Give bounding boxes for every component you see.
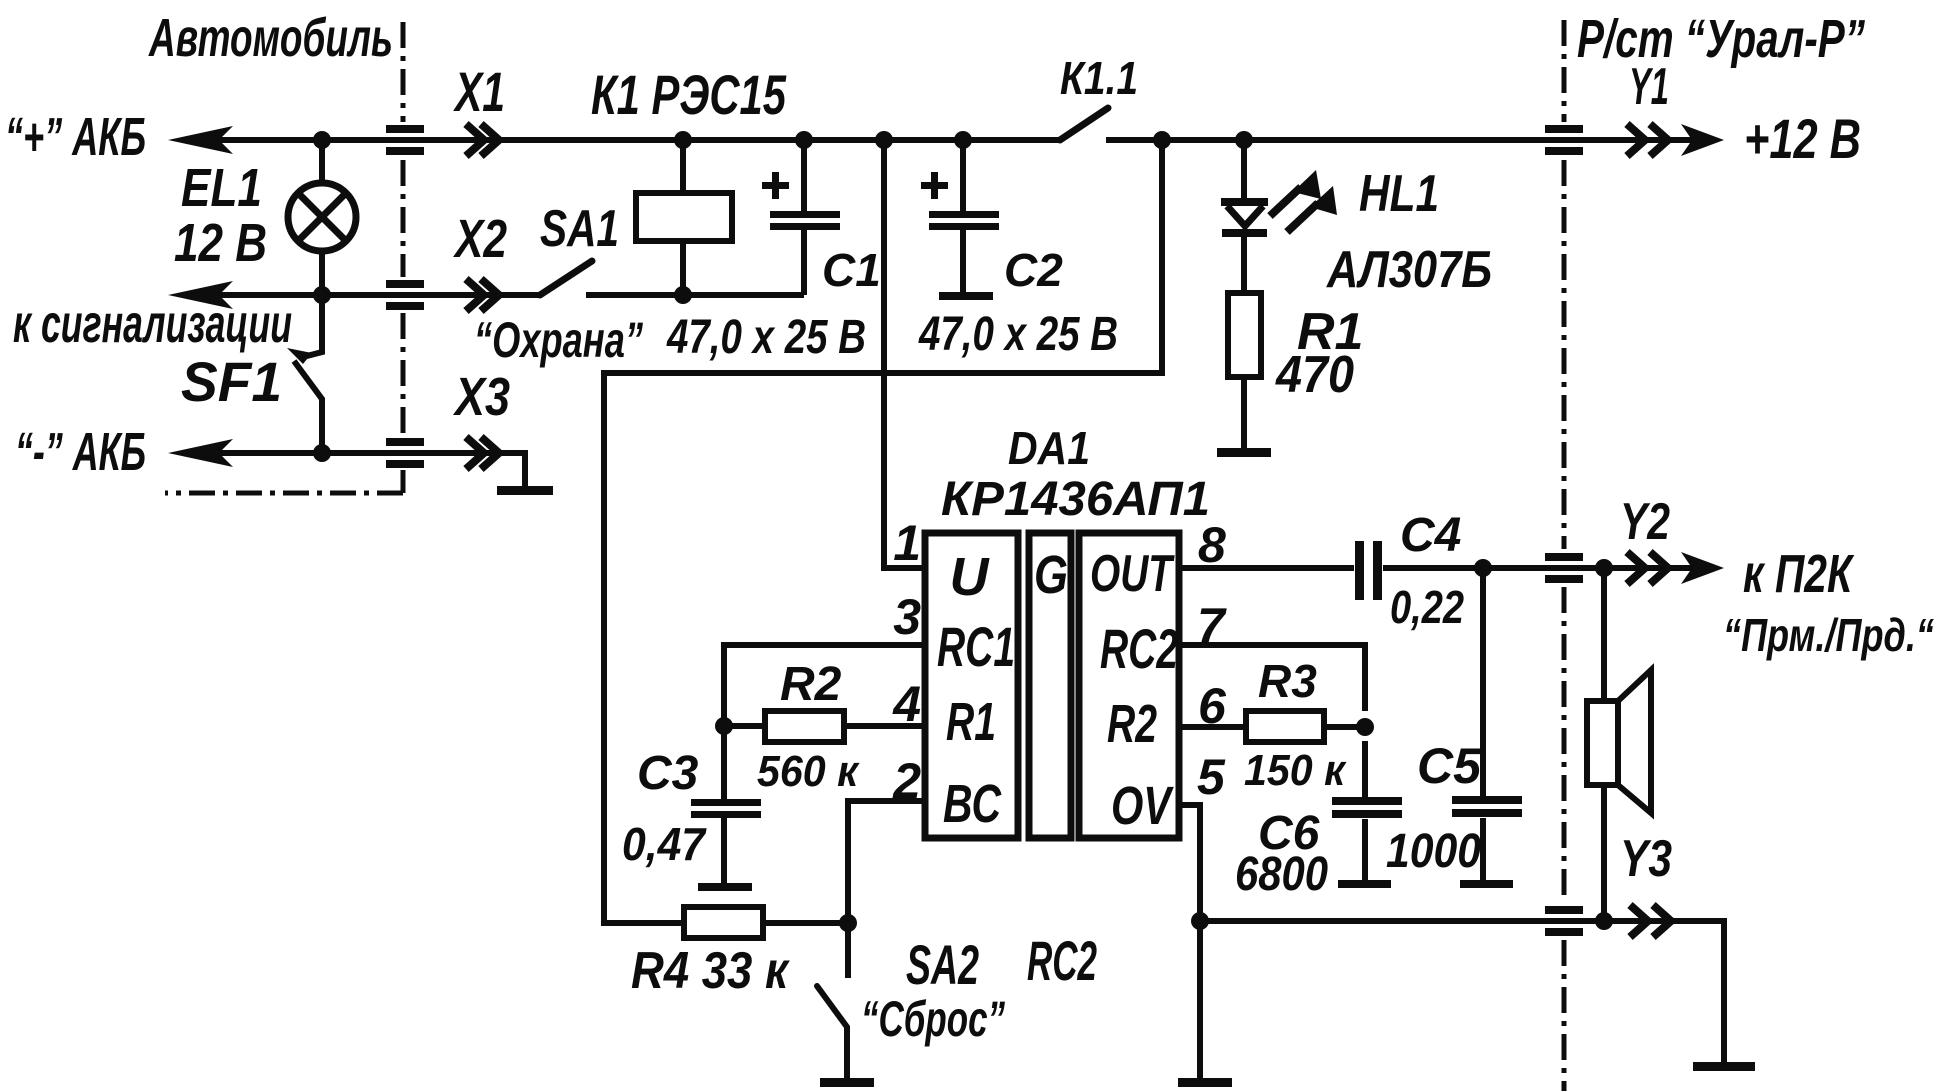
connector X2 bars: [386, 280, 424, 288]
ground bar OV: [1178, 1078, 1232, 1087]
svg-text:С4: С4: [1400, 509, 1461, 562]
arrow to -АКБ: [168, 439, 233, 467]
svg-text:+12 В: +12 В: [1744, 107, 1861, 170]
svg-text:3: 3: [893, 589, 921, 645]
svg-text:DA1: DA1: [1008, 422, 1090, 474]
wire R4 right lead: [763, 920, 848, 926]
wire speaker bottom lead: [1601, 785, 1607, 921]
wire SA2 upper stub: [845, 923, 851, 978]
wire C6 bottom lead to ground: [1362, 819, 1368, 880]
node top wire / C2: [954, 131, 972, 149]
enclosure border Р/ст Урал-Р (dash-dot): [1562, 20, 1567, 1091]
svg-text:“Прм./Прд.“: “Прм./Прд.“: [1723, 609, 1934, 661]
svg-text:EL1: EL1: [181, 158, 262, 218]
svg-text:АЛ307Б: АЛ307Б: [1325, 241, 1492, 299]
wire R1 bottom to ground: [1241, 377, 1247, 448]
enclosure border Автомобиль (dash-dot): [165, 22, 403, 493]
svg-text:к сигнализации: к сигнализации: [13, 294, 292, 354]
LED HL1: [1221, 198, 1268, 206]
node top wire / HL1 branch: [1235, 131, 1253, 149]
connector Y1 chevrons: [1627, 124, 1668, 156]
svg-text:“+” АКБ: “+” АКБ: [5, 107, 146, 167]
svg-text:0,22: 0,22: [1390, 581, 1464, 633]
capacitor C1 polarity +: [762, 182, 789, 189]
switch SA1 blade: [540, 261, 592, 295]
node R4-SA2 junction: [839, 914, 857, 932]
svg-text:Y3: Y3: [1620, 830, 1672, 888]
resistor R4: [684, 907, 763, 938]
LED HL1 light arrows: [1270, 187, 1318, 232]
IC DA1 box left section: [925, 533, 1018, 838]
speaker BA: [1587, 701, 1618, 785]
node top wire / C1: [795, 131, 813, 149]
connector X1 chevrons: [466, 124, 499, 156]
ground bar C3: [698, 883, 752, 891]
connector Y3 bars: [1545, 906, 1583, 914]
svg-text:G: G: [1034, 545, 1068, 605]
svg-text:HL1: HL1: [1359, 165, 1439, 223]
wire C5 top lead: [1480, 568, 1486, 796]
wire lamp top lead: [319, 140, 325, 184]
wire R2 right lead to pin4: [844, 723, 922, 729]
capacitor C4 plates: [1355, 541, 1364, 600]
wire +12V rail top: left arrow to X1: [185, 137, 1058, 143]
svg-text:С3: С3: [637, 747, 699, 800]
resistor R3: [1246, 711, 1324, 742]
svg-text:R2: R2: [780, 658, 842, 711]
svg-text:470: 470: [1275, 346, 1354, 404]
svg-text:С5: С5: [1417, 738, 1482, 794]
connector X3 bars: [386, 438, 424, 446]
svg-text:X1: X1: [453, 60, 505, 123]
svg-text:“Охрана”: “Охрана”: [474, 312, 643, 368]
svg-text:47,0 х 25 В: 47,0 х 25 В: [918, 308, 1118, 361]
wire -AKB line y=453: [185, 453, 525, 486]
wire lamp bottom lead: [319, 250, 325, 295]
svg-text:“Сброс”: “Сброс”: [861, 991, 1005, 1047]
svg-text:12 В: 12 В: [174, 213, 267, 273]
svg-text:6: 6: [1198, 678, 1227, 734]
svg-text:Y1: Y1: [1629, 58, 1669, 116]
svg-text:560 к: 560 к: [757, 747, 861, 796]
resistor R2: [765, 711, 844, 742]
node top wire / lamp branch: [313, 131, 331, 149]
svg-text:R4 33 к: R4 33 к: [631, 942, 790, 1000]
wire C6 top lead: [1362, 741, 1368, 797]
svg-text:“-” АКБ: “-” АКБ: [15, 422, 146, 482]
connector Y3 chevrons: [1630, 905, 1671, 937]
relay coil K1: [636, 193, 732, 241]
ground bar Y3: [1693, 1062, 1755, 1071]
IC DA1 box right section: [1079, 533, 1179, 838]
capacitor C2 polarity +: [921, 182, 948, 189]
IC DA1 box G section: [1029, 533, 1071, 838]
switch K1.1 blade: [1060, 108, 1108, 140]
svg-text:0,47: 0,47: [622, 818, 707, 870]
ground bar SA2: [820, 1078, 874, 1087]
capacitor C2 plates: [929, 211, 999, 218]
wire C4 to Y2: [1383, 565, 1700, 571]
resistor R1: [1228, 293, 1261, 377]
svg-text:К1 РЭС15: К1 РЭС15: [591, 63, 787, 126]
node wire3 / SF1 bottom: [313, 444, 331, 462]
arrow to сигнализация: [168, 281, 233, 309]
svg-text:U: U: [950, 547, 991, 607]
wire R3 left lead from pin6: [1182, 724, 1246, 730]
svg-text:Р/ст “Урал-Р”: Р/ст “Урал-Р”: [1577, 9, 1865, 69]
svg-text:SF1: SF1: [181, 350, 282, 413]
arrow +12V: [1681, 124, 1724, 156]
wire RC1 pin3 to C3 branch: [724, 645, 922, 799]
node wire2 / lamp-SF1: [313, 286, 331, 304]
node speaker bottom junction: [1595, 912, 1613, 930]
svg-text:к П2К: к П2К: [1743, 544, 1855, 604]
wire C2 bottom lead: [960, 229, 966, 292]
capacitor C6 plates: [1332, 797, 1402, 805]
svg-text:SA1: SA1: [540, 200, 619, 258]
svg-text:С1: С1: [822, 244, 881, 296]
svg-text:6800: 6800: [1235, 848, 1328, 901]
node speaker top junction: [1595, 559, 1613, 577]
ground bar R1: [1217, 448, 1271, 457]
svg-text:OV: OV: [1111, 776, 1174, 836]
svg-text:R3: R3: [1258, 655, 1317, 707]
svg-text:R2: R2: [1107, 694, 1157, 754]
svg-text:К1.1: К1.1: [1060, 52, 1138, 104]
wire BC pin2 elbow down to R4 node: [848, 801, 922, 923]
svg-text:SA2: SA2: [906, 933, 979, 996]
wire Y3 line: [1200, 921, 1724, 1062]
wire HL1 cathode to R1: [1241, 237, 1247, 293]
wire OV pin5 elbow down: [1182, 805, 1200, 1078]
connector X3 chevrons: [466, 437, 499, 469]
svg-text:Автомобиль: Автомобиль: [148, 8, 393, 68]
svg-text:RC2: RC2: [1100, 617, 1178, 680]
wire C1 top lead: [801, 140, 807, 211]
svg-text:OUT: OUT: [1090, 545, 1175, 603]
node R3-C6 junction: [1356, 718, 1374, 736]
connector Y1 bars: [1545, 125, 1583, 133]
wire HL1 branch top lead: [1241, 140, 1247, 199]
capacitor C5 plates: [1452, 796, 1522, 804]
wire signal line y=295: arrow to SA1: [185, 292, 540, 298]
connector X2 chevrons: [466, 279, 499, 311]
svg-text:Y2: Y2: [1620, 493, 1670, 551]
svg-text:1: 1: [893, 515, 921, 571]
wire R2 left lead: [724, 723, 765, 729]
switch SF1: [303, 295, 322, 357]
capacitor C3 plates: [691, 799, 761, 806]
wire RC2 pin7 elbow to R3 right: [1182, 645, 1365, 711]
ground bar C5: [1460, 880, 1513, 888]
node top wire / pin1 feed: [875, 131, 893, 149]
wire +12V rail top: K1.1 to Y1 arrow: [1106, 137, 1700, 143]
svg-text:X3: X3: [453, 367, 510, 427]
lamp EL1: [288, 183, 356, 251]
wire K1 coil leads: [680, 140, 686, 295]
wire signal line y=295: SA1 to C1 bottom: [586, 292, 804, 298]
connector X1 bars: [386, 125, 424, 133]
node R2-C3 junction: [715, 717, 733, 735]
svg-text:RC2: RC2: [1027, 929, 1097, 992]
svg-text:X2: X2: [453, 209, 507, 269]
wire speaker top lead: [1601, 568, 1607, 701]
svg-text:150 к: 150 к: [1244, 746, 1348, 795]
svg-text:5: 5: [1197, 749, 1226, 805]
wire pin1 feed: top rail down to DA1 pin 1: [884, 140, 922, 568]
connector Y2 chevrons: [1627, 552, 1668, 584]
node wire2 / K1 coil bottom: [674, 286, 692, 304]
svg-text:2: 2: [892, 753, 921, 809]
svg-text:7: 7: [1197, 598, 1227, 654]
arrow к П2К: [1681, 552, 1724, 584]
connector Y2 bars: [1545, 553, 1583, 561]
wire C1 bottom lead: [801, 229, 807, 295]
svg-text:RC1: RC1: [937, 615, 1015, 678]
ground bar C6: [1338, 880, 1391, 888]
wire R3 right lead: [1322, 724, 1365, 730]
svg-text:1000: 1000: [1386, 825, 1481, 878]
wire SA2 blade: [817, 986, 847, 1078]
svg-text:КР1436АП1: КР1436АП1: [941, 473, 1210, 526]
wire OUT pin8 to C4: [1182, 565, 1354, 571]
node top wire / K1 coil: [674, 131, 692, 149]
svg-text:4: 4: [892, 676, 921, 732]
capacitor C1 plates: [770, 211, 840, 218]
wire C5 bottom lead to ground: [1480, 818, 1486, 880]
node C4-C5 junction: [1474, 559, 1492, 577]
svg-text:8: 8: [1198, 517, 1226, 573]
svg-text:С2: С2: [1004, 244, 1063, 296]
svg-text:R1: R1: [946, 692, 996, 752]
ground bar C2: [939, 292, 993, 300]
svg-text:ВС: ВС: [943, 774, 1002, 834]
arrow to +АКБ: [168, 126, 233, 154]
wire loop: top rail down, across y=373, down left side to R4: [604, 140, 1162, 923]
ground after X3: [497, 486, 553, 495]
node top wire / loop down: [1153, 131, 1171, 149]
svg-text:47,0 х 25 В: 47,0 х 25 В: [666, 311, 866, 364]
wire C3 bottom lead: [721, 818, 727, 883]
wire C2 top lead: [960, 140, 966, 211]
node OV-Y3 junction: [1191, 912, 1209, 930]
